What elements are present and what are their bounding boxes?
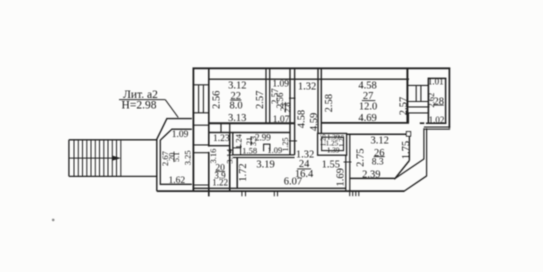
node wc box labels [320,133,347,154]
svg-text:1.25: 1.25 [281,138,290,152]
wire door leaf rect room 21 [264,144,270,151]
node vestibule labels [160,130,193,186]
svg-text:3.12: 3.12 [371,136,389,147]
wire vestibule inner wall [160,129,192,184]
svg-text:1.22: 1.22 [212,177,228,187]
svg-text:4.59: 4.59 [309,113,320,131]
wire outer west wall [192,68,194,193]
wire room 26 corner rect [406,132,410,137]
wire staircase box [69,140,157,177]
wire room 26 top wall [347,133,408,135]
svg-text:2.39: 2.39 [362,169,380,180]
svg-text:1.09: 1.09 [267,145,282,155]
svg-text:3.12: 3.12 [228,81,246,92]
wire window ticks bottom wall [242,191,278,196]
wire outer east wall lower [424,128,427,176]
wire corridor 3.19 left wall [236,158,238,189]
svg-text:1.58: 1.58 [242,145,257,155]
svg-text:4.69: 4.69 [358,113,376,124]
svg-text:1.26: 1.26 [320,134,328,147]
wire bottom outer line [157,190,404,192]
wire door tick hall left wall lower [289,140,297,142]
svg-text:6.07: 6.07 [284,177,302,188]
wire chamfer inner [395,159,424,179]
wire room 27 right wall [406,68,408,123]
wire shaft mullions [416,85,421,101]
svg-text:2.58: 2.58 [324,94,335,112]
svg-text:1.72: 1.72 [238,163,249,181]
svg-text:1.01: 1.01 [428,77,444,87]
wire band verticals closet [221,123,230,132]
svg-text:2.99: 2.99 [255,133,271,143]
wire room 21 stub partition [233,145,241,155]
svg-text:1.26: 1.26 [338,134,346,147]
svg-text:1.23: 1.23 [213,134,230,144]
wire room 21 bottom double wall [233,155,295,158]
node room 22 labels [212,81,266,125]
wire rooms 22 23 bottom wall [208,122,294,124]
node hall labels [297,82,321,131]
svg-text:3.16: 3.16 [208,149,218,164]
svg-text:1.32: 1.32 [298,82,316,93]
svg-text:4.58: 4.58 [358,80,376,91]
node room 20 labels [208,148,234,187]
svg-text:2.57: 2.57 [255,91,266,109]
svg-text:1.75: 1.75 [401,141,412,159]
wire porch steps [350,192,359,197]
svg-text:1.09: 1.09 [272,80,289,90]
wire staircase steps [74,140,121,177]
svg-text:2.75: 2.75 [356,149,367,167]
wire room 28 top wall [428,77,446,79]
wire chamfer outer [404,176,427,192]
wire hall 1.32 right wall [318,68,321,134]
wire room 26 bottom wall [350,177,395,179]
node room 28 labels [426,77,444,125]
node room 21 labels [234,133,291,156]
wire wc box outer [318,133,347,155]
svg-text:12.0: 12.0 [359,101,377,112]
svg-text:3.19: 3.19 [256,160,274,171]
svg-text:28: 28 [434,97,445,108]
svg-text:3.25: 3.25 [183,150,193,165]
node room 23 labels [270,80,292,126]
svg-text:3.13: 3.13 [228,113,246,124]
svg-text:2.56: 2.56 [212,91,223,109]
wire top strip inner top line [208,78,409,80]
wire room 21 left wall [232,133,234,156]
svg-text:8.3: 8.3 [372,158,384,168]
wire door tick room 26 left wall [344,161,352,163]
wire bottom inner line [193,187,346,189]
svg-text:2.8: 2.8 [283,103,292,113]
svg-text:8.0: 8.0 [229,100,242,111]
wire wc box inner [322,137,344,150]
wire room 26 left wall [346,134,350,191]
wire hall 1.32 left wall [290,68,295,155]
wire staircase center line [69,157,113,159]
svg-text:1.09: 1.09 [172,130,189,140]
svg-text:5.1: 5.1 [172,152,181,162]
wire room 28 left wall [427,78,429,124]
svg-text:4.58: 4.58 [297,110,308,128]
svg-text:Н=2.98: Н=2.98 [122,99,157,111]
wire wall between room 22 and 23 [266,68,270,123]
wire shaft rails between 27 and 28 [407,85,428,113]
svg-text:3.14: 3.14 [224,148,234,164]
wire closet 1.23 bottom line [209,145,230,147]
svg-text:2.57: 2.57 [399,97,410,115]
wire west wall window verticals [199,85,204,113]
wire outer east wall upper [448,68,450,129]
node stray dot [52,219,55,222]
svg-text:1.62: 1.62 [168,176,185,186]
wire staircase arrowhead [112,156,121,161]
svg-text:1.02: 1.02 [429,115,445,125]
wire vestibule outer wall [157,119,192,192]
wire room 26 chamfer wall [394,136,409,179]
node label Lit a2 [119,89,178,117]
wire step band right [424,127,450,129]
wire room 27 bottom wall [321,113,424,123]
wire door tick hall left wall [289,97,296,99]
svg-text:1.07: 1.07 [273,115,290,125]
svg-text:1.69: 1.69 [336,168,347,186]
node room 26 labels [356,136,412,181]
node closet 1.23 label [213,134,230,144]
wire band line closet and room 21 top [209,132,290,134]
wire closet 1.23 right wall [229,133,231,192]
node room 27 labels [324,80,410,124]
wire west wall inner line [208,69,210,196]
node room 24 labels [238,149,347,187]
wire room 28 right wall [445,78,447,123]
wire outer top wall [193,67,451,69]
wire room 28 bottom wall [426,122,447,124]
wire west wall rungs [193,85,208,185]
